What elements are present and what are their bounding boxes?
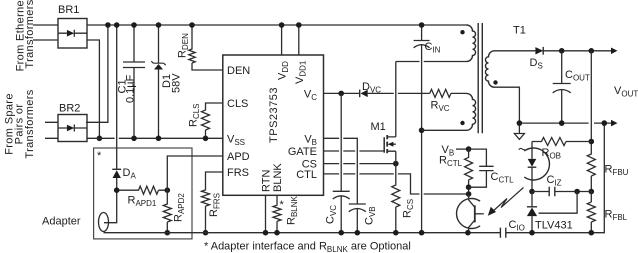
transistor M1 N-channel MOSFET xyxy=(384,62,396,164)
label COUT xyxy=(565,69,590,83)
wire BR1 inputs xyxy=(33,25,58,40)
pin label FRS xyxy=(227,167,249,179)
optocoupler light arrow xyxy=(488,188,524,216)
svg-text:TLV431: TLV431 xyxy=(535,220,573,232)
resistor RDEN xyxy=(189,22,223,70)
svg-text:T1: T1 xyxy=(513,25,526,37)
label T1 xyxy=(513,25,526,37)
wire bottom RTN rail (primary side, up to CIO) xyxy=(104,232,501,234)
label 0.1uF xyxy=(125,74,137,103)
transformer T1 primary winding xyxy=(460,25,475,61)
wire CS pin to M1 source / RCS (breaks at crossings) xyxy=(324,161,399,167)
wire VC pin with junction to CVC xyxy=(324,91,360,97)
label CCTL xyxy=(491,171,515,185)
label CIZ xyxy=(547,174,562,188)
label DA xyxy=(123,167,137,181)
wire bottom rail secondary side and riser to VOUT- rail xyxy=(506,123,605,233)
resistor RCS xyxy=(392,164,400,236)
label CIN xyxy=(425,41,441,55)
label RCTL xyxy=(439,155,463,169)
capacitor COUT xyxy=(553,51,571,123)
wire CTL pin to optocoupler collector (breaks at crossings) xyxy=(324,174,469,194)
label RFRS xyxy=(208,193,222,217)
wire VOUT+ rail with output arrow xyxy=(543,48,617,55)
pin label APD xyxy=(227,151,250,163)
svg-text:APD: APD xyxy=(227,151,250,163)
adapter jack plug xyxy=(99,213,109,232)
diode DVC xyxy=(360,90,430,98)
label ROB xyxy=(542,147,562,161)
label CVB xyxy=(364,206,378,225)
svg-text:FRS: FRS xyxy=(227,167,249,179)
label RFBL xyxy=(605,209,628,223)
resistor RBLNK xyxy=(273,195,281,235)
ground secondary xyxy=(514,123,524,139)
label Adapter xyxy=(42,216,81,228)
optocoupler phototransistor envelope arc xyxy=(457,199,481,229)
wire VB pin to CVB (break at CVC crossing) xyxy=(324,138,358,204)
wire BR2 inputs xyxy=(45,122,58,138)
pin label CLS xyxy=(227,98,248,110)
shunt regulator TLV431 xyxy=(527,192,537,236)
label 58V xyxy=(171,73,183,93)
svg-text:BR2: BR2 xyxy=(59,103,80,115)
label RAPD2 xyxy=(173,193,187,222)
caption note xyxy=(204,241,411,253)
resistor RCLS xyxy=(202,103,223,141)
capacitor CIZ with wire to feedback node xyxy=(532,187,591,197)
svg-text:TPS23753: TPS23753 xyxy=(268,87,280,143)
label VOUT xyxy=(614,85,638,99)
resistor RCTL xyxy=(465,149,473,197)
pin label CTL xyxy=(296,169,317,181)
label C1 xyxy=(117,79,129,93)
wire VDD pin to top rail xyxy=(279,22,285,55)
transformer T1 secondary winding xyxy=(485,51,497,87)
svg-text:Transformers: Transformers xyxy=(24,89,36,158)
wire VOUT+ to feedback divider xyxy=(590,51,592,142)
pin label GATE xyxy=(288,146,317,158)
optocoupler LED envelope arc xyxy=(519,148,550,180)
resistor RFBL xyxy=(587,192,595,236)
label TLV431 xyxy=(535,220,573,232)
zener diode D1 58V xyxy=(151,22,165,141)
wire TLV431 reference to divider node xyxy=(539,192,578,214)
wire APD pin to RAPD1/RAPD2 junction xyxy=(167,156,223,190)
svg-text:DEN: DEN xyxy=(227,65,250,77)
label RDEN xyxy=(177,33,191,58)
capacitor CIN xyxy=(414,22,430,235)
net label VB near RCTL xyxy=(442,144,455,158)
svg-text:58V: 58V xyxy=(171,73,183,93)
label D1 xyxy=(161,74,173,88)
wire VOUT- rail with output arrow (break at RFBU crossing) xyxy=(517,120,618,127)
label RVC xyxy=(431,100,450,114)
label TPS23753 xyxy=(268,87,280,143)
svg-text:*: * xyxy=(97,150,102,162)
diode DS xyxy=(535,47,543,55)
resistor RAPD2 xyxy=(163,190,171,235)
wire RTN pin to bottom rail xyxy=(263,195,269,235)
pin label BLNK xyxy=(272,163,284,192)
pin label VDD1 xyxy=(294,60,308,84)
resistor RFRS xyxy=(202,172,223,236)
bridge rectifier BR1 xyxy=(58,4,87,48)
svg-text:*: * xyxy=(280,199,285,211)
resistor RVC xyxy=(430,89,467,97)
pin label DEN xyxy=(227,65,250,77)
wire M1 drain to primary winding (break at CIN crossing) xyxy=(396,61,467,63)
optocoupler LED xyxy=(528,142,537,195)
svg-text:CTL: CTL xyxy=(296,169,317,181)
capacitor C1 0.1uF xyxy=(123,22,145,141)
transformer T1 core xyxy=(478,23,482,133)
label RAPD1 xyxy=(128,195,157,209)
wire secondary winding bottom to ground node xyxy=(495,87,520,123)
svg-text:* Adapter interface and RBLNK: * Adapter interface and RBLNK are Option… xyxy=(204,241,411,253)
wire GATE pin to M1 gate (breaks at crossings) xyxy=(324,150,385,152)
pin label VB xyxy=(304,133,317,147)
wire VB stub to RCTL top xyxy=(456,146,471,152)
adapter box xyxy=(94,148,192,239)
pin label VSS xyxy=(227,133,245,147)
label DVC xyxy=(362,81,381,95)
capacitor CVC xyxy=(333,93,350,235)
label RFBU xyxy=(605,164,629,178)
svg-text:0.1µF: 0.1µF xyxy=(125,74,137,103)
label CVC xyxy=(325,205,339,224)
svg-text:BLNK: BLNK xyxy=(272,163,284,192)
resistor ROB xyxy=(532,138,591,146)
capacitor CVB xyxy=(349,204,366,236)
svg-text:Adapter: Adapter xyxy=(42,216,81,228)
bridge rectifier BR2 xyxy=(58,103,87,142)
pin label CS xyxy=(302,159,317,171)
label RCS xyxy=(402,199,416,218)
label M1 xyxy=(371,121,386,133)
label asterisk RBLNK xyxy=(280,199,285,211)
capacitor CCTL xyxy=(469,149,494,187)
capacitor CIO isolation xyxy=(500,228,505,238)
label DS xyxy=(530,57,543,71)
op-amp/controller IC U1 TPS23753 box xyxy=(223,55,324,195)
pin label VC xyxy=(304,89,317,103)
transformer T1 auxiliary winding xyxy=(460,93,475,130)
diode DA with vertical wire from top rail to adapter jack xyxy=(104,22,121,223)
wire secondary winding top to DS xyxy=(495,50,536,52)
label CIO xyxy=(509,219,525,233)
svg-text:RTN: RTN xyxy=(261,170,273,192)
wire BR2 upper output riser to top rail xyxy=(86,22,111,122)
pin label RTN xyxy=(261,170,273,192)
input label: From Spare Pairs or Transformers xyxy=(4,89,37,158)
wire VSS rail (BR2 lower output to IC VSS pin, break at DA crossing) xyxy=(87,137,223,139)
wire aux winding bottom to primary return node xyxy=(422,129,467,131)
label asterisk in adapter box xyxy=(97,150,102,162)
svg-text:BR1: BR1 xyxy=(58,4,79,16)
svg-text:M1: M1 xyxy=(371,121,386,133)
label RBLNK xyxy=(286,195,300,225)
svg-text:Transformers: Transformers xyxy=(24,0,36,69)
label RCLS xyxy=(188,103,202,127)
svg-text:CLS: CLS xyxy=(227,98,248,110)
svg-text:GATE: GATE xyxy=(288,146,317,158)
wire VDD1 pin to top rail xyxy=(296,22,302,55)
pin label VDD xyxy=(277,61,291,80)
optocoupler phototransistor xyxy=(465,194,484,236)
wire BR1 lower output to VSS rail xyxy=(87,40,102,141)
resistor RAPD1 xyxy=(114,186,170,194)
resistor RFBU xyxy=(587,139,595,195)
input label: From Ethernet Transformers xyxy=(15,0,37,71)
wire top positive rail xyxy=(87,24,467,26)
